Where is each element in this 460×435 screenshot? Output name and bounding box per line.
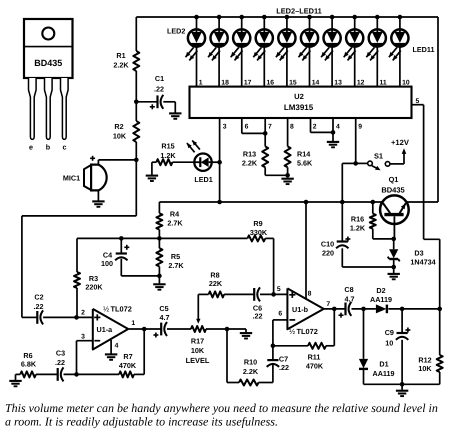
capacitor C10: [321, 202, 394, 267]
pin label 5: [416, 98, 420, 105]
led LED10: [366, 17, 386, 87]
svg-text:1N4734: 1N4734: [410, 258, 435, 267]
svg-text:C5: C5: [159, 304, 168, 313]
wire: left bus to C2: [22, 142, 139, 317]
svg-text:330K: 330K: [250, 228, 268, 237]
led LED5: [253, 17, 273, 87]
svg-text:R17: R17: [191, 337, 204, 346]
ground (R5/C4): [153, 276, 165, 290]
diode D2: [370, 286, 392, 313]
svg-text:4.7: 4.7: [345, 294, 355, 303]
label LED2-LED11: [276, 6, 322, 15]
capacitor C9: [385, 309, 411, 384]
capacitor C4: [101, 238, 159, 276]
resistor R11: [273, 309, 334, 371]
wire: U1-b pin 8 to +V rail: [305, 202, 307, 299]
svg-text:9: 9: [358, 124, 362, 131]
wire: pin 2 jumper: [311, 118, 336, 134]
resistor R15: [152, 142, 194, 166]
svg-text:R1: R1: [116, 51, 125, 60]
transistor Q1: [380, 195, 409, 241]
caption line 2: [5, 415, 278, 429]
svg-text:100: 100: [101, 259, 113, 268]
wire: bias rail: [77, 236, 247, 241]
svg-text:R7: R7: [123, 352, 132, 361]
svg-text:LED1: LED1: [194, 175, 212, 184]
resistor R7: [119, 329, 144, 377]
svg-text:LED2: LED2: [167, 27, 185, 36]
transistor package BD435 body (pictorial, top left): [24, 19, 73, 78]
resistor R9: [247, 219, 273, 294]
svg-text:2.7K: 2.7K: [168, 261, 184, 270]
wire: feedback node U1-a: [64, 372, 120, 377]
svg-text:6: 6: [278, 311, 282, 318]
caption line 1: [5, 401, 438, 415]
pin labels 3 6 7 8 2 4 9: [223, 124, 363, 131]
svg-text:D1: D1: [379, 360, 388, 369]
op-amp U1-a: [93, 309, 128, 350]
resistor R4: [156, 202, 183, 238]
wire: pin 6 jumper: [242, 118, 268, 135]
svg-text:10K: 10K: [418, 364, 432, 373]
svg-text:C9: C9: [385, 328, 394, 337]
svg-text:2: 2: [313, 124, 317, 131]
svg-text:R5: R5: [171, 252, 180, 261]
svg-text:22K: 22K: [209, 279, 223, 288]
svg-text:7: 7: [268, 124, 272, 131]
svg-text:TL072: TL072: [297, 327, 318, 336]
junctions on LED rail: [194, 15, 402, 20]
resistor R6: [16, 351, 58, 377]
wire: pin 9 column: [353, 118, 358, 165]
svg-text:.22: .22: [34, 302, 44, 311]
wire: pin 5 feed from detector: [412, 105, 440, 309]
svg-text:LM3915: LM3915: [284, 103, 314, 112]
svg-text:AA119: AA119: [373, 369, 395, 378]
resistor R12: [418, 309, 442, 384]
resistor R2: [113, 121, 139, 142]
ground (U1-a pin 4): [105, 349, 117, 360]
wire: pin 7 column: [264, 118, 266, 146]
wire: U1-b pin 5 input: [260, 292, 287, 297]
svg-text:5: 5: [277, 286, 281, 293]
resistor R14: [285, 146, 313, 177]
svg-text:R10: R10: [244, 358, 257, 367]
svg-text:2.7K: 2.7K: [167, 219, 183, 228]
svg-text:b: b: [46, 143, 51, 152]
svg-text:LED11: LED11: [413, 45, 435, 54]
capacitor C5: [153, 304, 169, 338]
wire: U1-a pin 4 stub: [110, 340, 112, 349]
svg-text:½: ½: [103, 304, 109, 313]
ground (R6): [9, 374, 21, 386]
ground (R17): [240, 329, 252, 339]
svg-text:AA119: AA119: [370, 295, 392, 304]
svg-text:220K: 220K: [85, 283, 103, 292]
svg-text:BD435: BD435: [34, 58, 62, 68]
svg-text:6: 6: [245, 124, 249, 131]
resistor R8: [198, 271, 254, 298]
switch S1: [356, 152, 390, 171]
resistor R5: [156, 238, 184, 278]
wire: top LED anode rail: [136, 17, 438, 202]
svg-text:C10: C10: [321, 240, 334, 249]
svg-text:1: 1: [131, 320, 135, 327]
svg-text:470K: 470K: [306, 362, 324, 371]
svg-text:BD435: BD435: [381, 186, 404, 195]
label LED2: [167, 27, 185, 36]
svg-text:4: 4: [115, 343, 119, 350]
wire: R17 node to R10: [227, 329, 239, 383]
wire: S1 to +12V: [390, 148, 406, 164]
svg-text:5.6K: 5.6K: [297, 159, 313, 168]
potentiometer R17: [186, 294, 246, 365]
package pin labels e b c: [29, 143, 67, 152]
svg-text:LED2–LED11: LED2–LED11: [276, 6, 322, 15]
wire: U1-a pin 3 input: [77, 341, 93, 375]
svg-text:+12V: +12V: [391, 138, 410, 147]
svg-text:TL072: TL072: [111, 304, 132, 313]
svg-text:4: 4: [336, 124, 340, 131]
led LED7: [299, 17, 319, 87]
label LED1: [194, 175, 212, 184]
wire: IC pin 3 column: [217, 118, 222, 204]
label +12V: [391, 138, 410, 147]
led LED4: [231, 17, 251, 87]
svg-text:½: ½: [289, 327, 295, 336]
svg-text:5: 5: [416, 98, 420, 105]
wire: U1-b pin 6 input: [273, 320, 288, 346]
label Q1: [381, 175, 404, 195]
resistor R13: [242, 146, 288, 175]
capacitor C3: [55, 349, 65, 382]
ground (pins 2,4): [327, 138, 339, 147]
svg-text:2: 2: [81, 310, 85, 317]
svg-text:8: 8: [290, 124, 294, 131]
ground (MIC1): [92, 190, 104, 206]
resistor R3: [74, 238, 103, 317]
led LED6: [276, 17, 296, 87]
led LED8: [321, 17, 341, 87]
transistor package BD435 legs: [29, 78, 69, 139]
ground (C9): [396, 384, 408, 396]
svg-text:R13: R13: [243, 150, 256, 159]
IC U2 LM3915: [190, 87, 412, 118]
svg-text:C3: C3: [56, 349, 65, 358]
label 1/2 TL072 (U1-a): [103, 304, 132, 313]
capacitor C7: [267, 344, 289, 383]
svg-text:.22: .22: [154, 85, 164, 94]
svg-text:8: 8: [308, 291, 312, 298]
svg-text:.22: .22: [55, 358, 65, 367]
svg-text:1.2K: 1.2K: [350, 224, 366, 233]
IC top pin numbers 1,18..10: [199, 80, 410, 87]
led LED9: [344, 17, 364, 87]
wire: C5 to R17: [167, 328, 191, 330]
wire: pin 4 column: [332, 118, 334, 138]
ground (D3): [388, 267, 400, 279]
svg-text:e: e: [29, 143, 33, 152]
wire: U1-a pin 2 input: [43, 315, 93, 320]
svg-text:C8: C8: [344, 285, 353, 294]
svg-text:R2: R2: [114, 122, 123, 131]
wire: detector ground rail: [364, 382, 440, 387]
svg-text:10K: 10K: [113, 132, 127, 141]
svg-text:470K: 470K: [119, 361, 137, 370]
svg-text:LEVEL: LEVEL: [186, 356, 210, 365]
diode D1: [359, 309, 395, 384]
svg-text:U2: U2: [294, 92, 304, 101]
led LED11: [389, 17, 409, 87]
svg-text:R11: R11: [308, 353, 321, 362]
svg-text:R16: R16: [351, 215, 364, 224]
svg-text:10K: 10K: [191, 346, 205, 355]
svg-text:R4: R4: [170, 210, 179, 219]
microphone MIC1: [63, 165, 107, 191]
svg-text:.22: .22: [279, 363, 289, 372]
svg-text:1.2K: 1.2K: [160, 151, 176, 160]
svg-text:3: 3: [223, 124, 227, 131]
label 1/2 TL072 (U1-b): [289, 327, 318, 336]
svg-text:2.2K: 2.2K: [242, 159, 258, 168]
led LED1: [187, 140, 220, 171]
svg-text:R15: R15: [161, 142, 174, 151]
svg-text:Q1: Q1: [389, 175, 399, 184]
wire: U1-b output: [324, 307, 346, 312]
svg-text:2.2K: 2.2K: [113, 61, 129, 70]
pin labels U1-a: [81, 310, 135, 350]
label LED11: [413, 45, 435, 54]
svg-text:2.2K: 2.2K: [243, 367, 259, 376]
ground (R13/R14): [281, 175, 293, 184]
wire: left bus top: [135, 17, 137, 51]
svg-text:R9: R9: [253, 219, 262, 228]
svg-text:D2: D2: [376, 286, 385, 295]
svg-text:.22: .22: [253, 312, 263, 321]
capacitor C6: [253, 287, 263, 320]
svg-text:R14: R14: [297, 150, 310, 159]
op-amp U1-b: [287, 288, 323, 329]
svg-text:7: 7: [326, 301, 330, 308]
resistor R10: [239, 358, 273, 386]
svg-text:D3: D3: [414, 249, 423, 258]
capacitor C1: [136, 74, 175, 109]
ground (C1): [169, 108, 181, 119]
wire: mic to bus: [90, 156, 136, 165]
capacitor C2: [34, 293, 44, 325]
svg-text:6.8K: 6.8K: [21, 360, 37, 369]
svg-text:3: 3: [81, 334, 85, 341]
svg-text:10: 10: [385, 338, 393, 347]
resistor R1: [113, 51, 139, 71]
wire: left bus mid: [134, 71, 139, 121]
svg-text:4.7: 4.7: [160, 313, 170, 322]
svg-text:C2: C2: [34, 293, 43, 302]
svg-text:This volume meter can be handy: This volume meter can be handy anywhere …: [5, 401, 438, 415]
wire: S1 branch to +V rail: [340, 163, 356, 204]
wire: pin 8 column: [287, 118, 289, 146]
wire: detector rail: [352, 307, 443, 312]
svg-text:C1: C1: [155, 74, 164, 83]
svg-text:U1-a: U1-a: [97, 325, 114, 334]
ground (R15): [146, 162, 158, 181]
wire: +V rail: [159, 200, 438, 205]
zener diode D3: [388, 239, 436, 269]
resistor R16: [350, 202, 394, 239]
svg-text:220: 220: [322, 249, 334, 258]
pin labels U1-b: [277, 286, 331, 318]
svg-text:MIC1: MIC1: [63, 174, 80, 183]
svg-text:S1: S1: [374, 152, 383, 161]
svg-text:a room. It is readily adjustab: a room. It is readily adjustable to incr…: [5, 415, 278, 429]
led LED2: [186, 17, 206, 87]
capacitor C8: [339, 285, 355, 318]
svg-text:U1-b: U1-b: [292, 305, 309, 314]
svg-text:c: c: [63, 143, 67, 152]
led LED3: [208, 17, 228, 87]
wire: U1-a output: [128, 327, 161, 332]
